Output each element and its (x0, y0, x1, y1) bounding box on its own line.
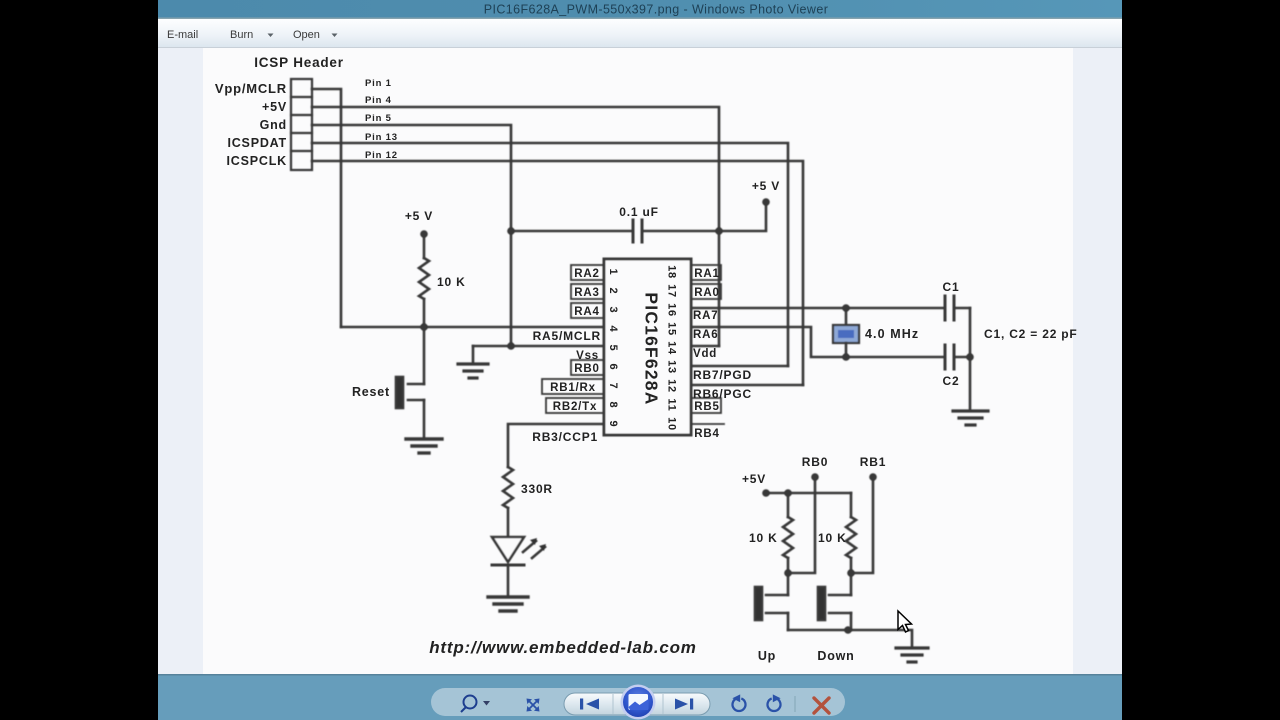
svg-text:330R: 330R (521, 482, 553, 496)
svg-text:15: 15 (666, 322, 678, 336)
junction dot vdd cap (715, 227, 723, 235)
wire RB7/PGD stub (691, 365, 788, 368)
svg-text:2: 2 (607, 288, 619, 295)
wire RB6/PGC stub (691, 384, 803, 387)
svg-text:RB1/Rx: RB1/Rx (550, 382, 596, 394)
rotate ccw button (732, 694, 745, 711)
zoom caret (483, 701, 490, 706)
junction dot c2 right (966, 353, 974, 361)
svg-text:Up: Up (758, 649, 776, 663)
pin label box RA0 (691, 284, 721, 299)
ground GND1 under reset (406, 439, 442, 453)
pin stub RB4 (691, 423, 724, 425)
svg-text:RA5/MCLR: RA5/MCLR (533, 329, 601, 343)
svg-text:Down: Down (817, 649, 854, 663)
svg-text:10 K: 10 K (437, 275, 466, 289)
wire RB3/CCP1 to LED branch (508, 424, 604, 467)
wire +5V top right drop (719, 202, 766, 231)
wire Vdd stub (691, 345, 719, 348)
pin label box RB5 (691, 398, 721, 413)
svg-text:Pin 13: Pin 13 (365, 132, 398, 143)
svg-text:RA6: RA6 (693, 329, 718, 341)
svg-text:RB0: RB0 (802, 455, 828, 469)
svg-text:7: 7 (607, 383, 619, 390)
wire +5V to Pin4 net (312, 107, 719, 346)
svg-text:RA2: RA2 (574, 268, 599, 280)
zoom magnifier button (461, 696, 477, 713)
svg-text:Open: Open (293, 29, 320, 41)
svg-text:+5V: +5V (262, 100, 287, 114)
resistor R1 10K pull-up (419, 234, 429, 327)
wire crystal caps to ground (969, 308, 972, 410)
wire bottom rail to ground (788, 630, 912, 647)
svg-text:PIC16F628A_PWM-550x397.png - W: PIC16F628A_PWM-550x397.png - Windows Pho… (484, 3, 829, 17)
junction dot gnd vss (507, 342, 515, 350)
junction dot rb1 (869, 473, 877, 481)
svg-text:10 K: 10 K (749, 531, 778, 545)
svg-text:ICSPCLK: ICSPCLK (227, 154, 287, 168)
svg-text:8: 8 (607, 402, 619, 409)
junction dot r3 top (784, 489, 792, 497)
junction dot +5V top (762, 198, 770, 206)
svg-text:6: 6 (607, 364, 619, 371)
node RB1 drop (851, 477, 873, 573)
svg-text:17: 17 (666, 284, 678, 298)
svg-text:RB0: RB0 (574, 363, 599, 375)
junction dot cap gnd side (507, 227, 515, 235)
junction dot rb0 (811, 473, 819, 481)
node +5V bottom rail (766, 492, 851, 495)
svg-text:Burn: Burn (230, 29, 253, 41)
svg-text:Vpp/MCLR: Vpp/MCLR (215, 81, 287, 96)
svg-text:RB2/Tx: RB2/Tx (553, 401, 597, 413)
svg-text:18: 18 (666, 265, 678, 279)
LED D1 (492, 537, 546, 596)
svg-text:ICSP Header: ICSP Header (254, 55, 344, 70)
svg-text:RA4: RA4 (574, 306, 599, 318)
prev next segmented control (564, 693, 710, 715)
node RB0 drop (788, 477, 815, 573)
wire RA7 to C1 (691, 307, 944, 310)
window title bar (158, 0, 1122, 19)
delete button (814, 698, 829, 713)
svg-text:Vss: Vss (576, 350, 599, 362)
svg-text:4: 4 (607, 326, 619, 333)
IC U1 PIC16F628A body (604, 259, 691, 435)
svg-text:Gnd: Gnd (260, 118, 287, 132)
junction dot +5V reset (420, 230, 428, 238)
svg-text:16: 16 (666, 303, 678, 317)
separator (794, 696, 796, 712)
rotate cw button (768, 694, 781, 711)
wire RA6 to C2 (691, 327, 944, 357)
pushbutton SW3 Down (818, 573, 851, 630)
wire Vss row (473, 345, 604, 348)
junction dot r4 bottom (847, 569, 855, 577)
pin label box RA4 (571, 303, 604, 318)
mouse cursor (898, 611, 912, 632)
svg-text:+5V: +5V (742, 472, 766, 486)
connector J1 ICSP header (291, 79, 312, 170)
svg-text:11: 11 (666, 398, 678, 411)
photo area (203, 48, 1073, 674)
svg-text:RA3: RA3 (574, 287, 599, 299)
svg-text:RA7: RA7 (693, 310, 718, 322)
wire ICSPCLK to Pin12 net (312, 161, 803, 385)
svg-text:Pin 4: Pin 4 (365, 95, 392, 106)
capacitor C2 (945, 345, 970, 369)
pin label box RB1/Rx (542, 379, 604, 394)
pin label box RB0 (571, 360, 604, 375)
junction dot rail gnd (844, 626, 852, 634)
ground GND3 crystal (953, 411, 988, 425)
svg-text:RA0: RA0 (694, 287, 719, 299)
resistor R2 330R (503, 467, 513, 537)
junction dot crystal bottom (842, 353, 850, 361)
previous button glyph (580, 699, 599, 710)
svg-text:RB6/PGC: RB6/PGC (693, 387, 752, 401)
svg-text:Pin 5: Pin 5 (365, 113, 392, 124)
svg-text:3: 3 (607, 307, 619, 314)
junction dot MCLR (420, 323, 428, 331)
resistor R3 10K (783, 493, 793, 573)
ground GND2 near Vss (458, 346, 488, 378)
junction dot r3 bottom (784, 569, 792, 577)
svg-text:RB5: RB5 (694, 401, 719, 413)
svg-text:+5 V: +5 V (752, 179, 780, 193)
wire Vpp/MCLR to Pin1 net (312, 89, 341, 327)
wire RA5/MCLR row (341, 326, 604, 329)
svg-text:Pin 1: Pin 1 (365, 78, 392, 89)
svg-text:12: 12 (666, 379, 678, 393)
capacitor 0.1uF (511, 220, 719, 242)
next button glyph (675, 699, 693, 710)
pin label box RA3 (571, 284, 604, 299)
svg-text:5: 5 (607, 345, 619, 352)
svg-text:10 K: 10 K (818, 531, 847, 545)
pushbutton SW1 Reset (396, 327, 424, 438)
svg-text:ICSPDAT: ICSPDAT (227, 136, 287, 150)
wire Gnd to Pin5 net (312, 125, 511, 346)
wire ICSPDAT to Pin13 net (312, 143, 788, 366)
svg-text:C1: C1 (943, 280, 960, 294)
svg-text:http://www.embedded-lab.com: http://www.embedded-lab.com (429, 638, 696, 657)
pin label box RA1 (691, 265, 721, 280)
ground GND5 buttons (896, 648, 928, 662)
svg-text:RA1: RA1 (694, 268, 719, 280)
ground GND4 under LED (488, 597, 528, 611)
svg-text:Pin 12: Pin 12 (365, 150, 398, 161)
svg-text:RB7/PGD: RB7/PGD (693, 368, 752, 382)
viewer content background (158, 48, 1122, 674)
svg-text:PIC16F628A: PIC16F628A (642, 292, 662, 405)
svg-text:Reset: Reset (352, 385, 390, 399)
svg-text:RB4: RB4 (694, 428, 719, 440)
pin label box RB2/Tx (546, 398, 604, 413)
svg-text:13: 13 (666, 360, 678, 374)
fit to window button (527, 699, 540, 712)
svg-text:C1, C2 = 22 pF: C1, C2 = 22 pF (984, 327, 1078, 341)
svg-text:+5 V: +5 V (405, 209, 433, 223)
svg-text:9: 9 (607, 421, 619, 428)
svg-text:0.1 uF: 0.1 uF (619, 205, 658, 219)
svg-text:4.0 MHz: 4.0 MHz (865, 327, 919, 341)
svg-text:E-mail: E-mail (167, 29, 198, 41)
pushbutton SW2 Up (755, 573, 788, 630)
crystal X1 4.0 MHz (833, 308, 859, 357)
menu toolbar (158, 19, 1122, 48)
play slideshow orb (621, 685, 656, 720)
svg-text:C2: C2 (943, 374, 960, 388)
svg-text:RB3/CCP1: RB3/CCP1 (532, 430, 598, 444)
svg-text:14: 14 (666, 341, 678, 355)
svg-text:Vdd: Vdd (693, 348, 717, 360)
capacitor C1 (945, 296, 970, 320)
svg-text:RB1: RB1 (860, 455, 886, 469)
svg-text:1: 1 (607, 269, 619, 276)
pin label box RA2 (571, 265, 604, 280)
junction dot crystal top (842, 304, 850, 312)
bottom toolbar (158, 674, 1122, 720)
resistor R4 10K (846, 493, 856, 573)
svg-text:10: 10 (666, 417, 678, 431)
controls pill (431, 688, 845, 716)
junction dot +5V bottom (762, 489, 770, 497)
